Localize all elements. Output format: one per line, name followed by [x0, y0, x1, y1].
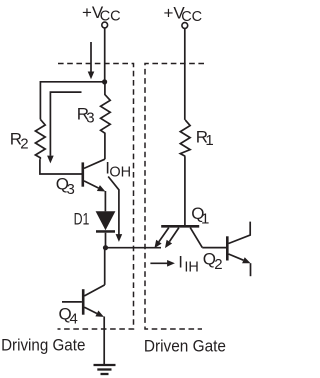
- wire VCC to R1: [184, 28, 186, 120]
- node A junction dot: [102, 79, 107, 84]
- resistor R1: [180, 120, 190, 156]
- svg-text:D1: D1: [74, 210, 90, 228]
- wire node A to R2 top: [40, 82, 104, 120]
- transistor Q2: [227, 222, 250, 277]
- svg-text:CC: CC: [100, 9, 121, 25]
- driving gate boundary (dashed): [58, 64, 134, 330]
- wire Q1 collector to Q2 base: [202, 247, 226, 249]
- transistor Q1 (multi-emitter): [154, 226, 202, 248]
- svg-text:1: 1: [205, 132, 213, 149]
- transistor Q4: [62, 285, 105, 317]
- wire output node to Q4 collector: [104, 248, 106, 285]
- svg-text:OH: OH: [109, 164, 131, 180]
- label +VCC (driving gate): [1, 3, 226, 356]
- current arrow into driving gate: [88, 42, 95, 79]
- current path arrow through R2: [47, 92, 81, 163]
- resistor R2: [35, 119, 45, 159]
- IOH current arrow: [108, 177, 122, 242]
- svg-text:Driving Gate: Driving Gate: [1, 336, 85, 355]
- svg-text:1: 1: [201, 210, 209, 227]
- ground: [94, 365, 116, 374]
- +VCC terminal (driving gate): [102, 22, 108, 28]
- svg-text:3: 3: [67, 181, 75, 198]
- svg-text:3: 3: [86, 110, 94, 127]
- +VCC terminal (driven gate): [182, 23, 188, 29]
- wire output node to Q1 emitters: [106, 247, 162, 249]
- svg-text:2: 2: [20, 135, 28, 152]
- transistor Q3: [83, 159, 106, 191]
- svg-text:I: I: [178, 252, 183, 271]
- wire Q4 emitter to ground: [103, 317, 105, 365]
- wire R2 bottom to Q3 base: [40, 159, 82, 174]
- wire R1 to Q1 base: [184, 156, 186, 225]
- wire Q3 emitter to D1 anode: [104, 191, 106, 211]
- wire VCC to node A: [104, 28, 106, 82]
- diode D1: [96, 211, 116, 233]
- resistor R3: [101, 82, 111, 159]
- svg-text:4: 4: [70, 311, 78, 328]
- svg-text:2: 2: [214, 256, 222, 273]
- svg-text:CC: CC: [181, 9, 202, 25]
- IIH current arrow: [150, 260, 175, 267]
- output node junction dot: [103, 245, 108, 250]
- svg-text:IH: IH: [184, 259, 199, 275]
- svg-text:Driven Gate: Driven Gate: [144, 336, 226, 355]
- driven gate boundary (dashed): [145, 64, 204, 330]
- wire D1 cathode to output node: [105, 233, 107, 248]
